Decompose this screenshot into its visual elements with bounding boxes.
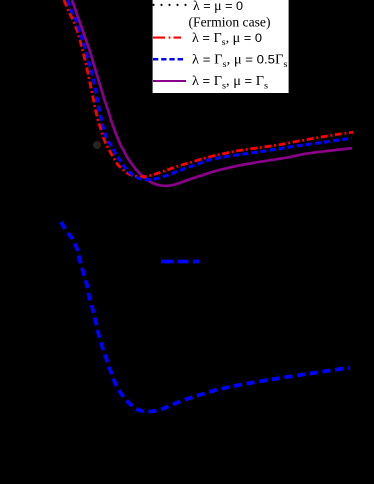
svg-text:(Fermion case): (Fermion case) (189, 14, 271, 29)
purple solid curve (top panel) (72, 0, 352, 186)
svg-text:λ = μ = 0: λ = μ = 0 (193, 0, 243, 13)
blue dashed curve (top panel) (68, 0, 352, 180)
bottom panel legend blue dashed sample (161, 260, 200, 264)
red dash-dot curve (top panel) (64, 0, 353, 177)
gray data dot (93, 141, 101, 149)
legend purple solid sample (153, 80, 186, 82)
legend blue dashed sample (153, 58, 183, 61)
legend box (152, 0, 290, 94)
legend dotted sample (black) (152, 4, 186, 6)
legend red dash-dot sample (153, 37, 181, 39)
blue dashed curve (bottom panel) (61, 222, 349, 412)
